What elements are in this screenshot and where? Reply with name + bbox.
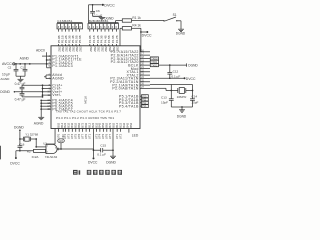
svg-text:UT6: UT6	[105, 133, 109, 139]
ground DGND (bottom)	[106, 156, 116, 164]
svg-text:C1: C1	[20, 66, 24, 70]
wire P-DVCC drop	[93, 129, 95, 158]
svg-text:UT3: UT3	[67, 133, 71, 139]
connector J1 (top-left port row)	[57, 19, 83, 29]
wire ADC bus (left)	[42, 52, 51, 68]
svg-text:XIN: XIN	[61, 134, 65, 139]
svg-text:C12: C12	[173, 69, 179, 73]
svg-text:B22: B22	[91, 122, 95, 127]
svg-text:DGND: DGND	[176, 31, 186, 35]
svg-text:UT1: UT1	[87, 133, 91, 139]
svg-text:C6: C6	[96, 9, 100, 13]
svg-text:0.47 µF: 0.47 µF	[15, 98, 26, 102]
capacitor C3	[20, 85, 51, 92]
wire crystal to gate input	[35, 139, 46, 148]
node port flags P5 (lower right)	[119, 95, 148, 109]
svg-text:DGND: DGND	[106, 161, 116, 165]
svg-text:B62: B62	[105, 122, 109, 127]
node bottom pin names inside U1	[56, 122, 132, 127]
ground DGND (S1)	[176, 21, 186, 36]
node interior vertical MCLK	[84, 96, 88, 104]
wire P-DGND drop	[112, 129, 114, 157]
power DVCC (top)	[89, 4, 116, 8]
svg-text:P3.0 P3.1 P3.2 P3.3 URXD0 TMS: P3.0 P3.1 P3.2 P3.3 URXD0 TMS TD1	[56, 116, 114, 120]
svg-text:GD0: GD0	[59, 141, 64, 143]
svg-text:B52: B52	[101, 122, 105, 127]
svg-text:C2: C2	[8, 66, 12, 70]
svg-text:P2.0/A8/TA1N: P2.0/A8/TA1N	[112, 87, 138, 91]
node LED label	[129, 129, 139, 138]
svg-text:AGND: AGND	[52, 77, 64, 81]
node interior text row 2	[56, 116, 114, 120]
svg-text:DVCC: DVCC	[88, 161, 98, 165]
svg-text:0.1 µF: 0.1 µF	[97, 153, 106, 157]
power AVCC	[2, 62, 47, 66]
node port flags TXD/RXD (right)	[150, 57, 158, 67]
power DVCC (right)	[150, 77, 196, 81]
svg-text:P5.6B: P5.6B	[78, 35, 82, 43]
svg-text:UT1: UT1	[115, 133, 119, 139]
node AGND label (AVCC filter)	[20, 56, 30, 60]
node net bubble	[58, 139, 65, 143]
connector J2 (top-right port row)	[88, 19, 119, 29]
node interior text row 1	[56, 110, 121, 114]
op-amp U2 NAND gate 74LS132	[32, 142, 59, 159]
svg-text:C14: C14	[191, 95, 197, 99]
wire XTAL2 to crystal	[150, 88, 171, 90]
svg-text:ADC0: ADC0	[36, 49, 45, 53]
ground DGND (osc)	[14, 125, 24, 139]
svg-text:DGND: DGND	[177, 115, 187, 119]
svg-text:C4SB2B1: C4SB2B1	[57, 19, 73, 23]
svg-text:B52: B52	[74, 122, 78, 127]
ground AGND (P6 bus)	[34, 117, 44, 125]
node left pin numbers	[47, 56, 50, 111]
capacitor C1	[20, 63, 27, 76]
node 0.47uF value (upper)	[15, 82, 26, 86]
svg-text:UT7: UT7	[80, 133, 84, 139]
wire Vref bus	[42, 84, 51, 97]
svg-text:DGND: DGND	[0, 90, 10, 94]
wire gate output	[59, 143, 94, 150]
ground DGND (crystal)	[171, 106, 192, 119]
svg-text:UT3: UT3	[94, 133, 98, 139]
op-amp U1 microcontroller body (QFP)	[51, 46, 140, 129]
wire XIN pin down to gate	[46, 129, 55, 145]
node caption 图1 数据采集电路	[73, 170, 122, 175]
svg-text:B32: B32	[122, 122, 126, 127]
svg-text:R4 1k: R4 1k	[132, 24, 141, 28]
svg-text:UT5: UT5	[101, 133, 105, 139]
power DVCC (bottom)	[88, 157, 98, 164]
svg-text:C15: C15	[100, 144, 106, 148]
svg-text:TA0 TA1 TA2 CAOUT ACLK TCK P3.: TA0 TA1 TA2 CAOUT ACLK TCK P3.6 P3.7	[56, 110, 121, 114]
svg-text:UT4: UT4	[70, 133, 74, 139]
svg-text:B22: B22	[118, 122, 122, 127]
node left pin labels inside U1	[52, 54, 82, 111]
svg-text:B32: B32	[94, 122, 98, 127]
svg-text:Y1 32768: Y1 32768	[25, 133, 38, 137]
crystal Y2	[170, 85, 193, 99]
svg-text:B52: B52	[129, 122, 133, 127]
node top pin names inside U1	[58, 46, 120, 52]
capacitor C13	[161, 91, 174, 108]
svg-text:P4.7B: P4.7B	[115, 35, 119, 43]
wire R4 to RST pin	[132, 28, 141, 52]
svg-text:P1.3/ADC3: P1.3/ADC3	[52, 64, 73, 68]
svg-text:B12: B12	[60, 122, 64, 127]
capacitor C2	[8, 63, 19, 76]
svg-text:B12: B12	[115, 122, 119, 127]
svg-text:B72: B72	[80, 122, 84, 127]
node 10uF value	[2, 73, 10, 77]
svg-text:B32: B32	[67, 122, 71, 127]
node ADC0 label	[36, 49, 45, 53]
wire DVCC drop to J1	[88, 5, 90, 23]
svg-text:74LS132: 74LS132	[45, 155, 58, 159]
wire XTAL1 to crystal	[150, 85, 193, 91]
svg-text:16MHz: 16MHz	[177, 95, 187, 99]
svg-text:B02: B02	[56, 122, 60, 127]
wire right pin stubs P2/XTAL with labels	[110, 50, 150, 91]
svg-text:AGND: AGND	[34, 121, 44, 125]
svg-text:DVCC: DVCC	[104, 4, 115, 8]
wire RST net	[116, 21, 123, 24]
wire R1 to S1	[132, 20, 164, 22]
switch S1	[163, 13, 181, 21]
wire bottom pin stubs	[56, 129, 122, 140]
svg-text:ZB2: ZB2	[79, 46, 83, 52]
power DVCC (osc)	[10, 150, 33, 166]
svg-text:S1: S1	[173, 13, 177, 17]
svg-text:B22: B22	[63, 122, 67, 127]
svg-text:B62: B62	[77, 122, 81, 127]
wire page edge artifact	[0, 146, 1, 160]
svg-text:AGND: AGND	[20, 56, 30, 60]
capacitor C12	[167, 65, 180, 78]
svg-text:R2: R2	[27, 150, 31, 154]
svg-text:B72: B72	[108, 122, 112, 127]
svg-text:LED: LED	[132, 133, 139, 137]
svg-text:DGND: DGND	[14, 125, 24, 129]
wire R4 left leg	[120, 28, 122, 31]
resistor R2	[27, 149, 46, 153]
svg-text:B42: B42	[125, 122, 129, 127]
svg-text:UT2: UT2	[118, 133, 122, 139]
svg-text:B42: B42	[98, 122, 102, 127]
svg-text:C13: C13	[161, 96, 167, 100]
svg-text:R1 1k: R1 1k	[132, 16, 141, 20]
svg-text:UT0: UT0	[56, 133, 60, 139]
svg-text:15pF: 15pF	[161, 101, 168, 105]
capacitor C4	[20, 92, 43, 97]
svg-text:B02: B02	[84, 122, 88, 127]
capacitor C14	[190, 91, 198, 108]
svg-text:UT0: UT0	[84, 133, 88, 139]
svg-text:DGND: DGND	[188, 64, 198, 68]
svg-text:15pF: 15pF	[191, 101, 198, 105]
wire top pin bus into U1	[57, 29, 120, 46]
svg-text:P5.4/TA1B: P5.4/TA1B	[119, 104, 139, 108]
wire P6 pins to AGND bus	[40, 99, 51, 117]
svg-text:DVCC: DVCC	[186, 77, 196, 81]
svg-text:TXD2: TXD2	[151, 64, 158, 67]
ground AGND (AVCC filter)	[0, 76, 25, 82]
svg-text:DVCC: DVCC	[10, 162, 20, 166]
crystal Y1	[19, 133, 38, 142]
power DVCC (reset)	[140, 31, 152, 38]
svg-text:B12: B12	[87, 122, 91, 127]
capacitor C15	[93, 144, 114, 157]
svg-text:UT4: UT4	[98, 133, 102, 139]
capacitor C6	[90, 5, 102, 17]
resistor R1	[122, 16, 141, 22]
svg-text:B02: B02	[112, 122, 116, 127]
svg-text:P13: P13	[142, 106, 147, 108]
svg-text:UT6: UT6	[77, 133, 81, 139]
svg-text:UT7: UT7	[108, 133, 112, 139]
svg-text:B42: B42	[70, 122, 74, 127]
svg-text:MCLK: MCLK	[84, 96, 88, 104]
svg-text:IC2A: IC2A	[32, 155, 40, 159]
resistor R4	[122, 24, 141, 30]
svg-text:Vref-: Vref-	[52, 93, 62, 97]
node 0.47uF value (lower)	[15, 98, 26, 102]
svg-text:AGND: AGND	[0, 77, 10, 81]
ground DGND (ref)	[0, 90, 42, 94]
svg-text:C16: C16	[19, 142, 25, 146]
wire IC pin to bubble	[61, 129, 65, 140]
ground DGND (top, C6)	[93, 16, 115, 20]
wire AVdd/AGND stubs	[44, 75, 51, 79]
svg-text:UT5: UT5	[74, 133, 78, 139]
capacitor C16	[18, 139, 25, 151]
svg-text:DGND: DGND	[104, 16, 114, 20]
ground DGND (right rail)	[159, 63, 199, 67]
svg-text:DVCC: DVCC	[142, 34, 152, 38]
